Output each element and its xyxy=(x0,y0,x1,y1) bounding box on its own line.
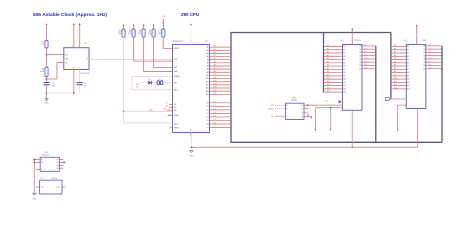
wire IC2 A7 stub xyxy=(391,67,409,71)
power +5V arrow (left branch) xyxy=(46,23,48,25)
IC X1 body xyxy=(40,180,62,194)
svg-text:Y4: Y4 xyxy=(301,116,303,118)
wire VCC stub R6 xyxy=(153,25,155,29)
wire Z80 A7 stub xyxy=(207,67,231,71)
wire IC1 A9 stub xyxy=(324,73,346,77)
net arrow U11 right xyxy=(64,161,66,163)
wire Z80 A10 stub xyxy=(206,76,231,80)
resistor R1 xyxy=(45,41,48,49)
wire Z80 VCC faint xyxy=(190,25,192,45)
wire Z80 A13 stub xyxy=(206,86,231,90)
pin stubs U10 right xyxy=(304,109,311,117)
net arrow WE xyxy=(315,129,317,131)
wire IC2 D7 stub xyxy=(423,67,441,70)
svg-text:Y3: Y3 xyxy=(301,113,303,115)
wire 555 output to Z80 CLK xyxy=(89,58,173,60)
svg-text:D0: D0 xyxy=(214,101,216,103)
svg-text:D3: D3 xyxy=(214,112,216,114)
power +5V arrow R5 xyxy=(143,24,145,26)
svg-text:A0: A0 xyxy=(214,45,216,48)
IC U11 body xyxy=(40,157,59,171)
wire junction to 555 pin 7 xyxy=(47,54,64,56)
pin label CE bubble triangle xyxy=(339,100,342,103)
svg-text:4: 4 xyxy=(78,46,79,48)
svg-text:TC5517: TC5517 xyxy=(354,40,361,42)
svg-text:10k: 10k xyxy=(138,33,141,35)
wire stub WR xyxy=(167,109,173,111)
wire stub MREQ xyxy=(168,114,173,116)
svg-text:MREQ: MREQ xyxy=(174,115,180,117)
wire IC1 A14 stub xyxy=(324,90,347,94)
wire 555 VCC pin 8 xyxy=(73,25,75,48)
svg-text:D7: D7 xyxy=(214,126,216,128)
node junction gnd net xyxy=(46,92,48,94)
svg-text:A6: A6 xyxy=(214,64,216,67)
wire IC1 GND xyxy=(351,110,353,147)
svg-text:RST: RST xyxy=(136,86,139,88)
wire R3 drop to BUSRQ xyxy=(123,37,125,123)
bus vertical IC2 address xyxy=(390,33,392,99)
op-amp U1 555 timer body xyxy=(64,48,89,70)
svg-text:29: 29 xyxy=(190,130,192,132)
wire Z80 A15 stub xyxy=(206,92,231,96)
svg-text:D6: D6 xyxy=(429,64,431,66)
svg-text:Y2: Y2 xyxy=(301,109,303,111)
svg-text:D7: D7 xyxy=(207,127,209,129)
wire IC2 A1 stub xyxy=(391,47,409,51)
wire IC1 D4 stub xyxy=(359,58,375,61)
wire IC1 A7 stub xyxy=(324,67,346,71)
node junction IC1 gnd xyxy=(351,147,353,149)
svg-text:A4: A4 xyxy=(214,57,216,60)
svg-text:D6: D6 xyxy=(207,124,209,126)
svg-text:A1: A1 xyxy=(214,48,216,51)
svg-text:D1: D1 xyxy=(214,105,216,107)
wire IC2 D1 stub xyxy=(423,48,441,51)
resistor R2 xyxy=(45,67,48,77)
net label arrow IC2 CE xyxy=(385,98,390,101)
wire VCC to R1 xyxy=(46,25,48,41)
wire R1 to R2 xyxy=(46,48,48,67)
wire stub RD xyxy=(169,106,173,108)
wire IC2 A8 stub xyxy=(391,70,409,74)
svg-text:D3: D3 xyxy=(423,55,425,57)
resistor R5 xyxy=(142,29,145,37)
wire IC2 VCC xyxy=(416,26,418,45)
svg-text:D0: D0 xyxy=(207,102,209,104)
wire IC1 A8 stub xyxy=(324,70,346,74)
wire Z80 gnd drop xyxy=(191,133,193,148)
svg-text:D4: D4 xyxy=(423,59,425,61)
wire R3 branch to WAIT xyxy=(124,110,173,112)
bus vertical data mid xyxy=(375,46,377,142)
wire IC2 A0 stub xyxy=(391,44,409,48)
wire D1 to C3 xyxy=(152,82,157,84)
svg-text:D3: D3 xyxy=(207,113,209,115)
wire OE net down xyxy=(330,108,332,130)
wire loop lower xyxy=(132,89,173,91)
wire Z80 A8 stub xyxy=(207,70,231,74)
svg-text:D4: D4 xyxy=(429,58,431,60)
wire IC1 A2 stub xyxy=(324,51,346,55)
wire C1 to ground xyxy=(46,85,48,99)
wire IC2 A11 stub xyxy=(391,80,410,84)
wire IC1 A12 stub xyxy=(324,83,347,87)
wire IC1 WE net down xyxy=(316,107,343,109)
svg-text:Y1: Y1 xyxy=(301,105,303,107)
wire IC1 VCC xyxy=(351,29,353,44)
wire 555 CV pin 5 dashed xyxy=(79,70,81,83)
svg-text:GND: GND xyxy=(190,155,195,157)
svg-text:A7: A7 xyxy=(214,67,216,70)
wire Z80 GND stub xyxy=(189,133,191,137)
net +5V label xyxy=(162,19,164,24)
wire VCC stub R3 xyxy=(123,25,125,29)
power +5V arrow IC1 xyxy=(351,28,353,30)
svg-text:A5: A5 xyxy=(214,60,216,63)
svg-text:A14: A14 xyxy=(214,89,217,92)
resistor R3 xyxy=(122,29,125,37)
wire junction to 555 pin 2 xyxy=(47,78,57,80)
wire IC2 A3 stub xyxy=(391,54,409,58)
svg-text:D1: D1 xyxy=(423,49,425,51)
wire IC1 A13 stub xyxy=(324,86,347,90)
svg-text:D3: D3 xyxy=(429,54,431,56)
svg-text:Z80 CPU: Z80 CPU xyxy=(181,12,199,17)
svg-text:D2: D2 xyxy=(359,52,361,54)
wire 555 GND pin 1 xyxy=(73,70,75,94)
wire U11 gnd branch xyxy=(33,160,35,193)
svg-text:M1: M1 xyxy=(166,103,168,105)
svg-text:D5: D5 xyxy=(214,119,216,121)
capacitor C2 xyxy=(77,82,83,84)
pin stub X1 left xyxy=(36,186,39,188)
wire IC1 A0 stub xyxy=(324,44,346,48)
wire C2 to gnd dashed xyxy=(79,85,81,93)
wire Z80 D4 stub xyxy=(207,116,231,119)
IC U9 ROM body xyxy=(406,45,426,109)
wire R4 drop to INT xyxy=(133,37,135,61)
svg-text:10k: 10k xyxy=(148,33,151,35)
wire Z80 D3 stub xyxy=(207,112,231,115)
svg-text:D0: D0 xyxy=(423,46,425,48)
svg-text:D2: D2 xyxy=(207,109,209,111)
svg-text:SW1: SW1 xyxy=(136,84,140,86)
wire IC1 A4 stub xyxy=(324,57,346,61)
svg-text:D2: D2 xyxy=(365,51,367,53)
power +5V arrow R4 xyxy=(133,24,135,26)
svg-text:D7: D7 xyxy=(429,67,431,69)
svg-text:D4: D4 xyxy=(365,58,367,60)
svg-text:B: B xyxy=(286,108,287,110)
wire IC1 A6 stub xyxy=(324,64,346,68)
wire IC1 D3 stub xyxy=(359,54,375,57)
wire IC2 A4 stub xyxy=(391,57,409,61)
wire IC2 CE xyxy=(390,98,406,100)
svg-text:D5: D5 xyxy=(207,120,209,122)
node junction R1-R2 to pin7 xyxy=(46,54,48,56)
svg-text:D1: D1 xyxy=(359,49,361,51)
svg-text:D6: D6 xyxy=(423,65,425,67)
svg-text:RESET: RESET xyxy=(174,48,179,50)
resistor R4 xyxy=(132,29,135,37)
svg-text:A13: A13 xyxy=(214,86,217,89)
svg-text:10n: 10n xyxy=(84,85,87,87)
wire Z80 A0 stub xyxy=(207,45,231,49)
IC U10 logic body xyxy=(286,103,305,119)
wire Z80 A4 stub xyxy=(207,57,231,61)
svg-text:D7: D7 xyxy=(365,67,367,69)
power +5V arrow pin 4 xyxy=(79,23,81,25)
wire IC1 A5 stub xyxy=(324,60,346,64)
wire Z80 A2 stub xyxy=(207,51,231,55)
svg-text:M1: M1 xyxy=(174,104,176,106)
bus vertical left (address/data collector) xyxy=(230,33,232,143)
svg-text:B1: B1 xyxy=(57,159,59,161)
IC U8 RAM body xyxy=(343,45,363,111)
node junction R3 WAIT branch xyxy=(123,111,124,112)
svg-text:D5: D5 xyxy=(423,62,425,64)
wire IC1 A10 stub xyxy=(324,77,347,81)
wire IC1 D5 stub xyxy=(359,61,375,64)
svg-text:A2: A2 xyxy=(214,51,216,54)
wire VCC stub R5 xyxy=(143,25,145,29)
wire Z80 A12 stub xyxy=(206,82,231,86)
svg-text:RST: RST xyxy=(174,82,177,84)
svg-text:A9: A9 xyxy=(214,73,216,76)
wire loop upper xyxy=(132,76,173,78)
svg-text:A3: A3 xyxy=(214,54,216,57)
svg-text:U11: U11 xyxy=(45,152,48,154)
svg-text:D6: D6 xyxy=(359,65,361,67)
resistor R6 xyxy=(152,29,155,37)
wire VCC stub R4 xyxy=(133,25,135,29)
power +5V arrow R7 xyxy=(162,24,164,26)
svg-text:GND: GND xyxy=(32,198,37,200)
wire IC2 A2 stub xyxy=(391,51,409,55)
power +5V arrow pin 8 xyxy=(73,23,75,25)
wire loop left xyxy=(131,77,133,90)
wire Z80 A11 stub xyxy=(206,79,231,83)
svg-text:A12: A12 xyxy=(214,82,217,85)
svg-text:D4: D4 xyxy=(214,116,216,118)
svg-text:D3: D3 xyxy=(365,54,367,56)
bus horizontal bottom xyxy=(230,141,442,143)
wire Z80 A9 stub xyxy=(207,73,231,77)
wire IC2 A13 stub xyxy=(391,86,410,90)
wire IC1 A3 stub xyxy=(324,54,346,58)
node junction Z80 gnd xyxy=(191,147,193,149)
wire IC2 A9 stub xyxy=(391,73,409,77)
svg-text:D5: D5 xyxy=(429,61,431,63)
power +5V arrow R6 xyxy=(153,24,155,26)
svg-text:D2: D2 xyxy=(429,51,431,53)
svg-text:D1: D1 xyxy=(207,106,209,108)
wire IC2 D3 stub xyxy=(423,54,441,57)
power arrow U10 aux2 xyxy=(310,117,312,119)
svg-text:470k: 470k xyxy=(40,71,44,73)
svg-text:11: 11 xyxy=(190,41,192,43)
wire IC2 A12 stub xyxy=(391,83,410,87)
pin labels U11 inside xyxy=(41,158,58,171)
wire Z80 A14 stub xyxy=(206,89,231,93)
wire IC2 D4 stub xyxy=(423,58,441,61)
net arrow IC2 OE xyxy=(397,129,399,131)
wire Z80 D2 stub xyxy=(207,108,231,111)
ground symbol bottom net xyxy=(190,150,193,152)
wire IC1 D1 stub xyxy=(359,48,375,51)
svg-text:G: G xyxy=(41,169,42,171)
svg-text:A15: A15 xyxy=(214,92,217,95)
wire Z80 D7 stub xyxy=(207,126,231,129)
svg-text:74HC04: 74HC04 xyxy=(42,155,49,157)
svg-text:555 Astable Clock (Approx. 1Hz: 555 Astable Clock (Approx. 1Hz) xyxy=(33,12,108,17)
wire dashed to D1 xyxy=(141,82,148,84)
svg-text:D0: D0 xyxy=(359,46,361,48)
node junction U11 pin2 xyxy=(34,162,35,163)
svg-text:MREQ: MREQ xyxy=(268,108,274,110)
ground symbol (555 circuit) xyxy=(45,99,48,101)
svg-text:D2: D2 xyxy=(423,52,425,54)
wire Z80 D0 stub xyxy=(207,101,231,104)
svg-text:B4: B4 xyxy=(57,168,59,170)
power +5V arrow Z80 xyxy=(190,23,192,25)
pin stub X1 right xyxy=(62,186,65,188)
wire IC1 A11 stub xyxy=(324,80,346,84)
pin labels Z80 left column xyxy=(174,48,180,129)
capacitor C1 xyxy=(44,82,50,84)
wire Z80 D6 stub xyxy=(207,123,231,126)
wire Z80 A5 stub xyxy=(207,60,231,64)
svg-text:LM555CN(8): LM555CN(8) xyxy=(80,73,91,75)
IC U7 Z80 CPU body xyxy=(173,45,210,133)
wire IC2 D5 stub xyxy=(423,61,441,64)
wire U10 in1 xyxy=(275,104,286,106)
wire R6 drop to NMI xyxy=(153,37,155,67)
wire IC2 A6 stub xyxy=(391,64,409,68)
bus vertical IC1 address xyxy=(323,33,325,93)
wire IC1 A1 stub xyxy=(324,47,346,51)
wire IC2 D2 stub xyxy=(423,51,441,54)
svg-text:10u: 10u xyxy=(52,85,55,87)
svg-text:D6: D6 xyxy=(365,64,367,66)
wire IC2 GND up from bottom net xyxy=(416,109,418,148)
resistor R7 xyxy=(162,29,165,37)
svg-text:D1: D1 xyxy=(365,48,367,50)
wire Z80 D5 stub xyxy=(207,119,231,122)
svg-text:D4: D4 xyxy=(207,117,209,119)
svg-text:B3: B3 xyxy=(57,165,59,167)
svg-text:OSC16: OSC16 xyxy=(51,178,57,180)
net entry arrow CS xyxy=(307,104,309,106)
node junction R2-C1 xyxy=(46,78,48,80)
wire U10 in3 xyxy=(275,115,286,117)
net arrow OE xyxy=(330,129,332,131)
svg-text:D0: D0 xyxy=(429,45,431,47)
wire IC2 D6 stub xyxy=(423,64,441,67)
wire IC2 D0 stub xyxy=(423,45,441,48)
svg-text:GND: GND xyxy=(44,103,49,105)
wire Z80 A6 stub xyxy=(207,64,231,68)
ground symbol U11 xyxy=(33,193,36,195)
svg-text:BUSRQ: BUSRQ xyxy=(174,76,180,78)
svg-text:D2: D2 xyxy=(214,108,216,110)
pin labels U10 inside xyxy=(286,104,303,118)
pin stubs U11 left xyxy=(34,160,40,170)
svg-text:B2: B2 xyxy=(57,162,59,164)
svg-text:D1: D1 xyxy=(149,79,151,81)
svg-text:A10: A10 xyxy=(214,76,217,79)
wire R5 drop to WAIT xyxy=(143,37,145,71)
svg-text:A11: A11 xyxy=(214,79,217,82)
node junction 555 gnd xyxy=(73,92,75,94)
svg-text:10k: 10k xyxy=(158,33,161,35)
wire VCC stub R7 xyxy=(162,25,164,29)
svg-text:D6: D6 xyxy=(214,123,216,125)
svg-text:10k: 10k xyxy=(128,33,131,35)
bus vertical right xyxy=(441,46,443,142)
svg-text:D5: D5 xyxy=(365,61,367,63)
node junction U11 pin1 xyxy=(34,159,35,160)
svg-text:D7: D7 xyxy=(359,68,361,70)
wire stub M1 xyxy=(169,103,173,105)
svg-text:8: 8 xyxy=(72,46,73,48)
pin stubs U11 right xyxy=(59,160,63,169)
svg-text:A15: A15 xyxy=(270,104,273,107)
wire bottom ground net xyxy=(192,146,418,148)
power arrow U10 aux1 xyxy=(307,115,309,117)
wire IC2 A10 stub xyxy=(391,77,410,81)
wire Z80 A3 stub xyxy=(207,54,231,58)
wire C3 to Z80 RST xyxy=(163,82,173,84)
wire Z80 D1 stub xyxy=(207,105,231,108)
svg-text:Z80CPU: Z80CPU xyxy=(173,41,184,43)
svg-text:D0: D0 xyxy=(365,45,367,47)
wire IC2 A5 stub xyxy=(391,60,409,64)
wire IC1 D7 stub xyxy=(359,67,375,70)
svg-text:1k: 1k xyxy=(42,44,44,46)
svg-text:10k: 10k xyxy=(118,33,121,35)
svg-text:D7: D7 xyxy=(423,68,425,70)
bus horizontal top xyxy=(230,32,391,34)
wire IC1 CS from U10 xyxy=(304,104,343,106)
svg-text:D1: D1 xyxy=(429,48,431,50)
svg-text:2716: 2716 xyxy=(422,40,426,42)
wire U10 in2 xyxy=(275,108,286,110)
svg-text:D4: D4 xyxy=(359,59,361,61)
wire gnd net horizontal xyxy=(47,92,74,94)
wire R2 to C1 xyxy=(46,77,48,83)
svg-text:X1: X1 xyxy=(41,178,43,180)
svg-text:74LS32: 74LS32 xyxy=(291,100,298,102)
wire 555 reset pin 4 xyxy=(79,25,81,48)
power +5V arrow R3 xyxy=(123,24,125,26)
power +5V arrow IC2 xyxy=(416,25,418,27)
svg-text:OUT: OUT xyxy=(56,187,60,189)
svg-text:D3: D3 xyxy=(359,55,361,57)
wire IC1 D0 stub xyxy=(359,45,375,48)
wire R7 drop to RESET xyxy=(162,37,164,48)
wire IC1 D6 stub xyxy=(359,64,375,67)
svg-text:A8: A8 xyxy=(214,70,216,73)
wire IC2 OE to bottom net xyxy=(398,104,407,106)
no-connect arc RFSH xyxy=(169,127,172,128)
svg-text:D5: D5 xyxy=(359,62,361,64)
wire Z80 A1 stub xyxy=(207,48,231,52)
wire IC1 D2 stub xyxy=(359,51,375,54)
